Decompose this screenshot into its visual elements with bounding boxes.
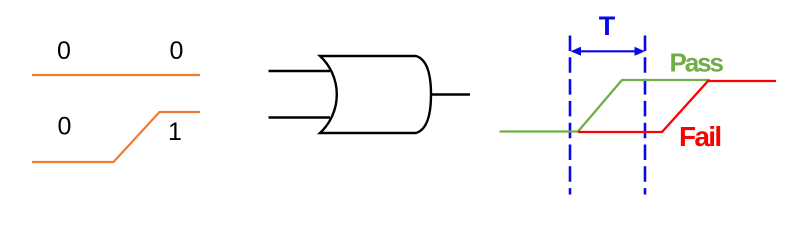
svg-text:0: 0 — [57, 37, 71, 65]
T interval double arrow — [571, 47, 646, 56]
node: timing window dashed line left — [569, 36, 572, 195]
wire gate output — [432, 93, 471, 95]
svg-text:0: 0 — [170, 37, 184, 65]
svg-text:Fail: Fail — [679, 121, 720, 152]
gate U1 body (OR-style gate) — [320, 56, 431, 133]
wire input B waveform (0 to 1 transition) — [32, 112, 200, 162]
svg-text:0: 0 — [58, 113, 72, 141]
svg-text:1: 1 — [168, 118, 182, 146]
wire gate input bottom — [269, 116, 331, 118]
wire input A waveform (constant 0) — [32, 74, 200, 76]
node: timing window dashed line right — [644, 36, 647, 195]
signal trace green pass (early transition) — [500, 80, 711, 132]
svg-text:T: T — [599, 11, 616, 41]
wire gate input top — [269, 70, 331, 72]
signal trace red fail (late transition) — [578, 81, 776, 132]
svg-text:Pass: Pass — [670, 47, 724, 77]
